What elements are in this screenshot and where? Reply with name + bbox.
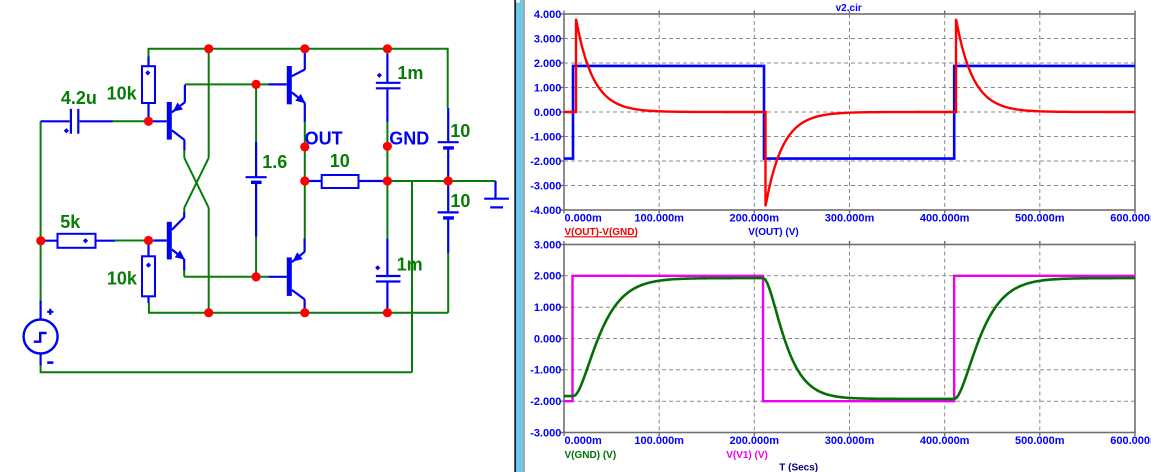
svg-text:200.000m: 200.000m [730, 212, 780, 224]
svg-text:10: 10 [450, 121, 470, 141]
svg-text:-1.000: -1.000 [530, 365, 561, 377]
svg-text:0.000: 0.000 [534, 333, 562, 345]
svg-text:200.000m: 200.000m [730, 435, 780, 447]
svg-text:10k: 10k [107, 268, 138, 288]
svg-text:V(GND) (V): V(GND) (V) [565, 450, 617, 461]
svg-text:3.000: 3.000 [534, 33, 562, 45]
svg-text:1m: 1m [397, 63, 423, 83]
svg-text:600.000m: 600.000m [1110, 212, 1151, 224]
svg-text:-2.000: -2.000 [530, 156, 561, 168]
svg-text:2.000: 2.000 [534, 271, 562, 283]
svg-text:10k: 10k [107, 84, 138, 104]
svg-text:100.000m: 100.000m [634, 212, 684, 224]
svg-text:1m: 1m [397, 255, 423, 275]
svg-text:300.000m: 300.000m [825, 435, 875, 447]
svg-text:GND: GND [389, 128, 429, 148]
svg-text:300.000m: 300.000m [825, 212, 875, 224]
svg-text:-4.000: -4.000 [530, 205, 561, 217]
svg-text:10: 10 [450, 191, 470, 211]
svg-text:400.000m: 400.000m [920, 212, 970, 224]
svg-text:2.000: 2.000 [534, 58, 562, 70]
svg-text:0.000m: 0.000m [565, 212, 603, 224]
svg-text:500.000m: 500.000m [1015, 212, 1065, 224]
svg-text:1.6: 1.6 [262, 152, 287, 172]
svg-text:-2.000: -2.000 [530, 396, 561, 408]
svg-text:-3.000: -3.000 [530, 427, 561, 439]
svg-text:3.000: 3.000 [534, 239, 562, 251]
svg-text:-1.000: -1.000 [530, 131, 561, 143]
svg-text:0.000m: 0.000m [565, 435, 603, 447]
svg-text:4.000: 4.000 [534, 9, 562, 21]
svg-text:0.000: 0.000 [534, 107, 562, 119]
svg-text:100.000m: 100.000m [634, 435, 684, 447]
svg-text:400.000m: 400.000m [920, 435, 970, 447]
svg-text:v2.cir: v2.cir [836, 3, 862, 14]
svg-text:-3.000: -3.000 [530, 180, 561, 192]
svg-text:10: 10 [330, 151, 350, 171]
svg-text:V(OUT) (V): V(OUT) (V) [748, 227, 799, 238]
svg-text:5k: 5k [60, 212, 81, 232]
svg-text:1.000: 1.000 [534, 302, 562, 314]
svg-text:OUT: OUT [305, 128, 343, 148]
svg-text:V(OUT)-V(GND): V(OUT)-V(GND) [565, 227, 638, 238]
svg-text:600.000m: 600.000m [1110, 435, 1151, 447]
svg-text:500.000m: 500.000m [1015, 435, 1065, 447]
svg-text:4.2u: 4.2u [61, 88, 97, 108]
svg-text:1.000: 1.000 [534, 82, 562, 94]
svg-text:V(V1) (V): V(V1) (V) [726, 450, 768, 461]
svg-text:T (Secs): T (Secs) [779, 463, 818, 472]
